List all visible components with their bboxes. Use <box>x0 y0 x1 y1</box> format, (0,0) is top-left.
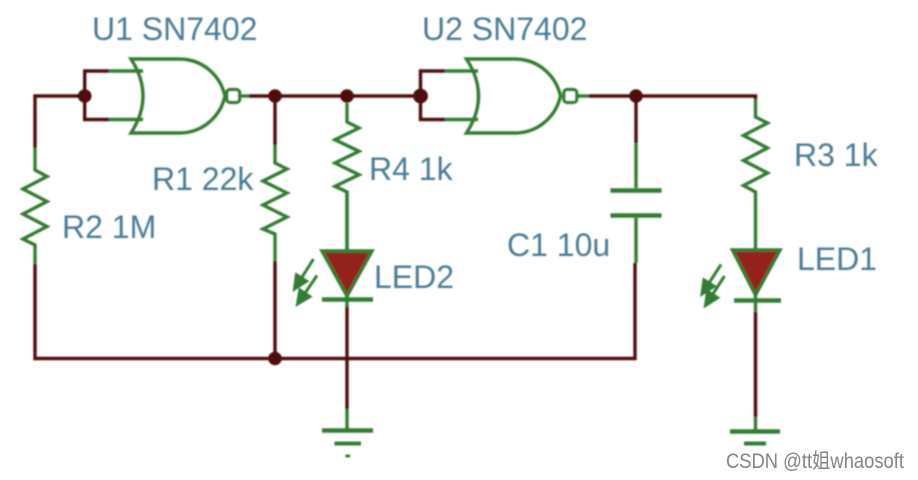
svg-text:LED2: LED2 <box>374 259 454 295</box>
svg-text:LED1: LED1 <box>797 241 877 277</box>
ground under LED1 <box>730 417 780 444</box>
node: bottom rail junction <box>268 352 282 366</box>
svg-text:CSDN @tt姐whaosoft: CSDN @tt姐whaosoft <box>726 450 904 473</box>
wire: U1 output to U2 input <box>249 94 421 97</box>
wire: LED2 cathode to ground <box>345 305 348 409</box>
svg-text:U1 SN7402: U1 SN7402 <box>92 11 257 47</box>
resistor R2 <box>23 148 47 264</box>
ground under LED2 <box>322 409 373 456</box>
node: C1 top junction <box>629 89 643 103</box>
NOR gate U2 SN7402 <box>445 59 589 133</box>
resistor R3 <box>744 99 768 250</box>
wire: left feedback from U1 input to R2 top <box>35 96 85 148</box>
LED1 arrows <box>702 265 725 306</box>
svg-text:U2 SN7402: U2 SN7402 <box>422 11 587 47</box>
wire: U1 input tie bar <box>85 71 109 120</box>
wire: C1 top drop <box>634 96 637 143</box>
wire: U2 input tie bar <box>421 71 446 120</box>
wire: R1 bottom drop <box>273 261 276 359</box>
wire: LED1 cathode to ground <box>754 312 757 417</box>
svg-text:C1 10u: C1 10u <box>507 227 610 263</box>
LED1 <box>733 250 782 312</box>
node: U2 input junction <box>413 89 428 104</box>
resistor R1 <box>263 145 287 261</box>
wire: R1 top drop <box>273 96 276 145</box>
wire: U2 output to R3 corner <box>589 96 756 100</box>
svg-text:R4 1k: R4 1k <box>369 151 454 187</box>
LED2 arrows <box>295 259 318 304</box>
LED2 <box>322 192 373 307</box>
resistor R4 <box>335 103 359 251</box>
node: U1 output junction <box>268 89 282 103</box>
node: U1 input junction <box>78 89 92 103</box>
svg-text:R2 1M: R2 1M <box>62 209 156 245</box>
svg-text:R1 22k: R1 22k <box>152 161 254 197</box>
node: R4 top junction <box>340 89 354 103</box>
capacitor C1 <box>611 143 662 263</box>
wire: bottom rail from C1 to R2 <box>35 263 635 359</box>
svg-text:R3 1k: R3 1k <box>794 137 879 173</box>
NOR gate U1 SN7402 <box>109 59 249 133</box>
